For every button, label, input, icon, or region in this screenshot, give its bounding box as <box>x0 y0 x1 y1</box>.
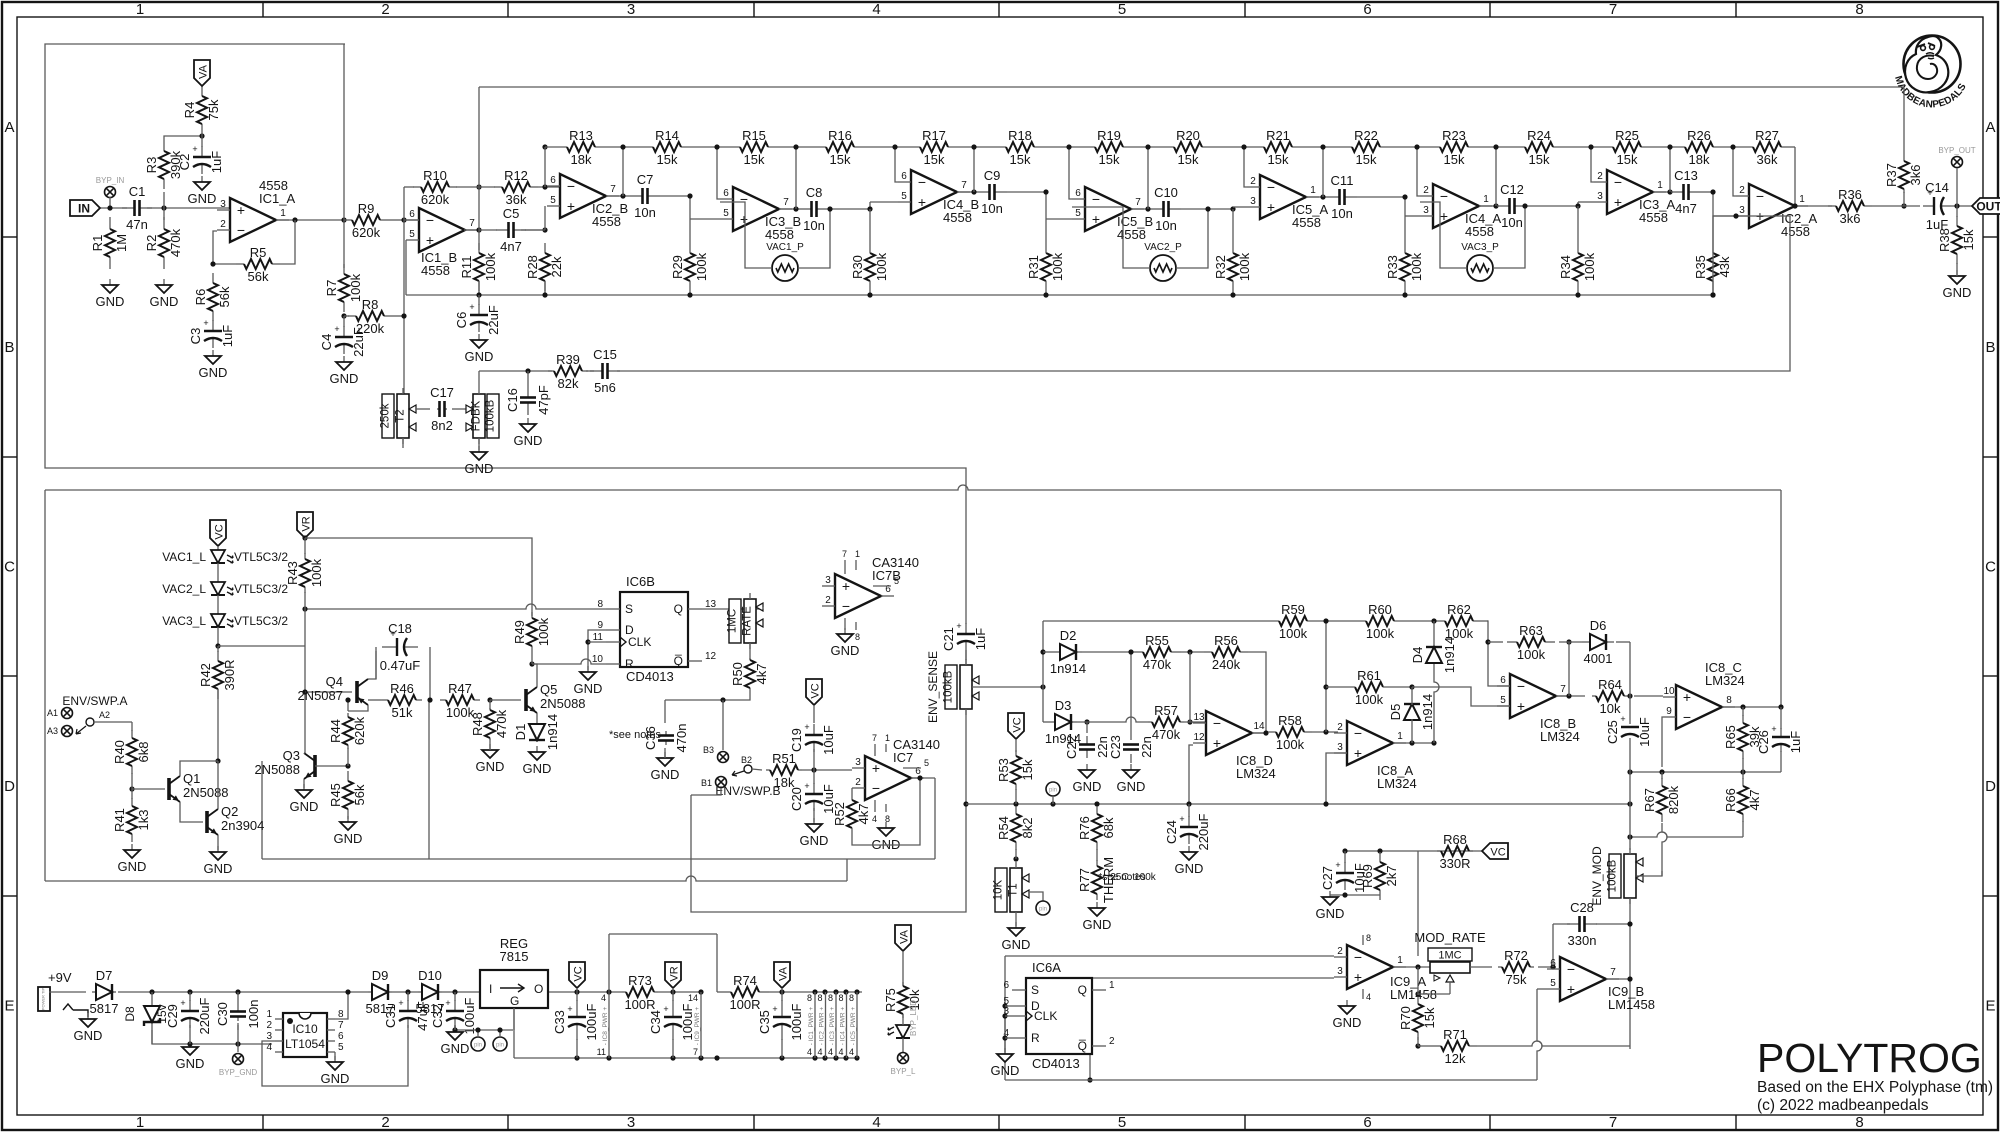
svg-text:8: 8 <box>849 993 854 1003</box>
resistor R4 <box>182 86 221 134</box>
wire R67 to wiper <box>1662 823 1667 876</box>
diode D3 <box>1045 698 1081 746</box>
wire link <box>131 722 133 731</box>
wire R64 to IC8_C <box>1634 695 1663 697</box>
capacitor C11 <box>1327 173 1357 221</box>
svg-text:100k: 100k <box>1517 647 1546 662</box>
svg-text:7: 7 <box>1560 684 1566 695</box>
svg-text:VAC2_L: VAC2_L <box>162 582 206 596</box>
resistor R55 <box>1133 633 1181 672</box>
svg-text:R8: R8 <box>362 297 379 312</box>
svg-text:2N5088: 2N5088 <box>183 785 229 800</box>
svg-text:4: 4 <box>1366 992 1371 1002</box>
junction <box>714 144 719 149</box>
svg-text:−: − <box>426 212 434 228</box>
madbeanpedals logo <box>1892 36 1969 111</box>
junction rail <box>822 989 827 994</box>
svg-text:6: 6 <box>1363 1114 1371 1131</box>
junction cap node <box>867 206 872 211</box>
wire link <box>1956 206 1958 217</box>
wire link <box>1742 772 1744 779</box>
svg-text:+: + <box>1771 724 1776 734</box>
wire center riser <box>1325 621 1327 732</box>
resistor R54 <box>996 806 1035 850</box>
op-amp IC2_A <box>1736 184 1817 239</box>
junction gnd rail <box>714 1055 719 1060</box>
power pins IC8_PWR <box>597 992 609 1058</box>
power flag VR <box>665 962 681 988</box>
capacitor C5 <box>496 206 526 254</box>
ground <box>1943 270 1972 300</box>
capacitor C2 <box>177 144 224 174</box>
wire link <box>237 992 239 1007</box>
wire to Q5 base <box>490 699 521 701</box>
junction R43 bottom <box>302 606 307 611</box>
svg-text:3: 3 <box>1337 742 1343 753</box>
wire to bus resistor <box>1404 216 1406 253</box>
svg-text:VA: VA <box>778 966 790 981</box>
wire link <box>163 192 165 220</box>
junction <box>620 144 625 149</box>
svg-text:5n6: 5n6 <box>594 380 616 395</box>
junction <box>1145 144 1150 149</box>
junction bus <box>1186 801 1191 806</box>
wire Q to RATE <box>702 608 763 610</box>
svg-text:GND: GND <box>1175 861 1204 876</box>
wire to pin5 <box>1412 687 1510 706</box>
ground <box>334 816 363 846</box>
svg-text:3: 3 <box>627 1114 635 1131</box>
svg-text:220uF: 220uF <box>197 998 212 1035</box>
wire <box>1005 1005 1012 1007</box>
wire C7 out <box>660 195 690 197</box>
svg-text:10uF: 10uF <box>1637 717 1652 747</box>
svg-text:GND: GND <box>514 433 543 448</box>
power flag VC <box>210 520 226 546</box>
port IN <box>70 200 100 216</box>
svg-text:VTL5C3/2: VTL5C3/2 <box>234 614 288 628</box>
wire Q3 base <box>315 765 348 767</box>
wire bus resistor to bus <box>1404 281 1406 295</box>
photocell VAC1_P <box>766 242 804 281</box>
svg-text:C19: C19 <box>789 728 804 752</box>
wire C28 right <box>1596 923 1630 925</box>
junction <box>1659 769 1664 774</box>
wire link <box>1096 849 1098 861</box>
pad B2 <box>732 755 752 776</box>
svg-text:68k: 68k <box>1101 817 1116 838</box>
svg-text:R63: R63 <box>1519 623 1543 638</box>
svg-text:3: 3 <box>220 199 226 210</box>
svg-text:+: + <box>567 198 575 214</box>
wire D2 to R55 <box>1082 651 1133 653</box>
svg-text:6: 6 <box>1003 980 1009 991</box>
wire B3 up <box>722 700 724 750</box>
junction <box>1040 684 1045 689</box>
wire to bus resistor <box>1045 219 1047 253</box>
wire VA loop left <box>608 934 610 992</box>
wire bias bus VB <box>406 294 1713 296</box>
svg-text:7: 7 <box>1609 1 1617 18</box>
wire IC3_A feedback tap <box>1669 147 1671 192</box>
pad <box>716 777 727 788</box>
svg-text:VA: VA <box>198 64 210 79</box>
resistor R38 <box>1937 216 1976 264</box>
svg-text:GND: GND <box>74 1028 103 1043</box>
junction <box>1588 144 1593 149</box>
wire feedback riser x344 <box>343 44 345 220</box>
svg-text:pin: pin <box>1039 907 1047 913</box>
svg-text:C7: C7 <box>637 172 654 187</box>
junction output tap <box>620 193 625 198</box>
svg-text:−: − <box>872 780 880 796</box>
pad BYP_L <box>891 1053 916 1077</box>
svg-text:*see notes: *see notes <box>609 729 661 741</box>
wire link <box>131 773 133 789</box>
svg-text:VC: VC <box>1490 847 1505 859</box>
svg-text:C: C <box>4 559 15 576</box>
junction R7 branch <box>341 217 346 222</box>
svg-text:22n: 22n <box>1139 736 1154 758</box>
wire T1 wiper <box>1029 892 1043 901</box>
svg-text:GND: GND <box>523 761 552 776</box>
svg-text:15k: 15k <box>1444 152 1465 167</box>
svg-text:VR: VR <box>301 516 313 531</box>
svg-text:- IC3_PWR +: - IC3_PWR + <box>829 1007 836 1046</box>
svg-text:R34: R34 <box>1558 255 1573 279</box>
junction cap node <box>1710 189 1715 194</box>
junction gnd rail <box>843 1055 848 1060</box>
resistor R1 <box>90 217 129 269</box>
wire bus resistor to bus <box>689 281 691 295</box>
resistor R3 <box>144 141 183 189</box>
svg-text:GND: GND <box>465 349 494 364</box>
frame column tick <box>507 2 509 17</box>
svg-text:LM324: LM324 <box>1705 673 1745 688</box>
resistor R70 <box>1398 996 1437 1040</box>
svg-text:43k: 43k <box>1717 256 1732 277</box>
svg-text:VAC1_P: VAC1_P <box>766 242 804 253</box>
svg-text:6: 6 <box>1075 188 1081 199</box>
wire link <box>454 992 456 1001</box>
junction gnd rail <box>670 1055 675 1060</box>
junction <box>1733 213 1738 218</box>
junction <box>542 292 547 297</box>
svg-text:R43: R43 <box>285 561 300 585</box>
svg-text:3: 3 <box>627 1 635 18</box>
resistor R39 <box>548 352 588 391</box>
port OUT <box>1972 198 2000 214</box>
svg-text:R31: R31 <box>1026 255 1041 279</box>
svg-text:1: 1 <box>136 1114 144 1131</box>
resistor R34 <box>1558 252 1597 281</box>
svg-text:GND: GND <box>118 859 147 874</box>
svg-text:8: 8 <box>855 632 860 642</box>
svg-text:CD4013: CD4013 <box>1032 1056 1080 1071</box>
svg-text:R9: R9 <box>358 201 375 216</box>
svg-text:5: 5 <box>1118 1 1126 18</box>
junction <box>1415 991 1420 996</box>
diode D4 <box>1410 637 1457 673</box>
svg-text:6: 6 <box>1550 958 1556 969</box>
svg-text:4558: 4558 <box>1781 224 1810 239</box>
svg-text:Q5: Q5 <box>540 682 557 697</box>
diode D7 <box>90 968 119 1016</box>
svg-text:1: 1 <box>1109 980 1115 991</box>
wire link <box>781 992 783 1001</box>
resistor R74 <box>721 973 769 1012</box>
ground <box>290 784 319 814</box>
power flag VR <box>297 512 313 538</box>
wire C20 to gnd <box>813 808 815 822</box>
wire link <box>304 538 306 554</box>
junction <box>1740 769 1745 774</box>
wire C18 left drop <box>375 647 377 679</box>
svg-text:36k: 36k <box>506 192 527 207</box>
wire IC5_A input tap <box>1244 147 1247 187</box>
svg-text:C18: C18 <box>388 621 412 636</box>
wire mod loop bottom <box>1005 1079 1537 1081</box>
svg-text:R1: R1 <box>90 235 105 252</box>
svg-text:330R: 330R <box>1439 856 1470 871</box>
junction R37 node <box>1901 203 1906 208</box>
wire C9 out <box>1007 191 1046 193</box>
wire feedback long line <box>617 216 1790 371</box>
junction <box>1740 704 1745 709</box>
resistor R10 <box>413 168 457 207</box>
wire link <box>217 646 219 652</box>
svg-text:R4: R4 <box>182 102 197 119</box>
wire pin5 bias drop <box>405 240 407 295</box>
wire C19 to node <box>813 749 815 770</box>
svg-text:R32: R32 <box>1213 255 1228 279</box>
svg-text:- IC9_PWR +: - IC9_PWR + <box>694 1007 701 1046</box>
op-amp IC8_A <box>1334 721 1417 791</box>
svg-text:GND: GND <box>1333 1015 1362 1030</box>
junction C22 tap <box>1084 719 1089 724</box>
svg-text:D: D <box>4 778 15 795</box>
wire top section outline <box>45 44 966 624</box>
resistor R40 <box>112 730 151 774</box>
svg-text:100k: 100k <box>1409 252 1424 281</box>
wire IC5_B output <box>1131 208 1151 210</box>
junction R54/T1 <box>1013 856 1018 861</box>
svg-text:C23: C23 <box>1108 735 1123 759</box>
svg-text:C9: C9 <box>984 168 1001 183</box>
junction output tap <box>1667 189 1672 194</box>
power flag VC <box>806 679 822 705</box>
wire <box>1005 1037 1012 1039</box>
junction <box>971 144 976 149</box>
ground <box>1002 922 1031 952</box>
svg-text:C22: C22 <box>1064 735 1079 759</box>
svg-text:15k: 15k <box>1617 152 1638 167</box>
junction LED chain node <box>215 643 220 648</box>
svg-text:R33: R33 <box>1385 255 1400 279</box>
svg-text:C31: C31 <box>383 1004 398 1028</box>
svg-text:D7: D7 <box>96 968 113 983</box>
wire R35 to pin3 <box>1713 216 1736 295</box>
wire link <box>672 1039 674 1058</box>
photocell VAC2_P <box>1144 242 1182 281</box>
svg-text:GND: GND <box>831 643 860 658</box>
wire link <box>478 295 480 305</box>
junction <box>1627 769 1632 774</box>
junction R44/R45 <box>345 763 350 768</box>
junction rail <box>698 989 703 994</box>
svg-text:ENV/SWP.B: ENV/SWP.B <box>715 784 780 798</box>
wire pin3 row <box>1090 977 1334 979</box>
junction gnd rail <box>812 1055 817 1060</box>
junction gnd rail <box>574 1055 579 1060</box>
svg-text:R47: R47 <box>448 681 472 696</box>
svg-text:+: + <box>469 302 474 312</box>
resistor R48 <box>470 708 509 740</box>
op-amp IC8_B <box>1497 674 1580 744</box>
resistor R72 <box>1498 948 1534 987</box>
svg-text:IC1_A: IC1_A <box>259 191 295 206</box>
svg-text:VC: VC <box>214 524 226 539</box>
svg-text:100k: 100k <box>1355 692 1384 707</box>
svg-text:5: 5 <box>1550 978 1556 989</box>
svg-text:POLYTROG: POLYTROG <box>1757 1035 1982 1081</box>
wire link <box>189 1025 191 1044</box>
wire pin5 drop <box>1537 989 1542 1080</box>
svg-text:1MC: 1MC <box>727 609 739 633</box>
wire B2 to R51 <box>752 769 762 770</box>
svg-text:R25: R25 <box>1615 128 1639 143</box>
op-amp IC4_B <box>898 170 979 225</box>
svg-text:4558: 4558 <box>765 227 794 242</box>
LED VAC2_L <box>162 582 288 596</box>
junction bus <box>1402 292 1407 297</box>
svg-text:12: 12 <box>705 651 717 662</box>
svg-text:IN: IN <box>78 202 90 216</box>
wire link <box>407 992 409 1001</box>
junction rail <box>779 989 784 994</box>
junction <box>917 775 922 780</box>
wire <box>1005 1015 1012 1017</box>
wire IC5_A feedback tap <box>1322 147 1324 197</box>
junction output tap <box>1493 203 1498 208</box>
svg-text:15k: 15k <box>1268 152 1289 167</box>
svg-text:R: R <box>1031 1031 1040 1045</box>
op-amp IC7 <box>852 737 940 800</box>
svg-text:D3: D3 <box>1055 698 1072 713</box>
capacitor C21 <box>941 621 988 651</box>
ground <box>199 350 228 380</box>
svg-text:11: 11 <box>597 1047 606 1057</box>
svg-text:R21: R21 <box>1266 128 1290 143</box>
wire BYP_IN stub <box>109 197 111 208</box>
svg-text:R11: R11 <box>459 256 474 279</box>
wire link <box>531 652 533 664</box>
svg-text:6: 6 <box>723 188 729 199</box>
wire env feedback row <box>1043 620 1279 622</box>
wire link <box>1344 851 1346 863</box>
IC IC6A <box>1026 960 1092 1071</box>
wire BYP_GND stub <box>237 1044 239 1052</box>
wire VC to LEDs <box>217 546 219 550</box>
svg-text:GND: GND <box>290 799 319 814</box>
wire to bus resistor <box>1712 216 1714 253</box>
svg-text:GND: GND <box>96 294 125 309</box>
wire R27 return <box>1794 147 1796 206</box>
svg-text:7: 7 <box>1610 967 1616 978</box>
junction <box>1627 693 1632 698</box>
wire R61 right <box>1383 686 1412 688</box>
junction <box>1627 921 1632 926</box>
wire IC3_B feedback tap <box>795 147 797 209</box>
svg-text:−: − <box>918 174 926 190</box>
junction <box>1241 144 1246 149</box>
junction bus <box>963 801 968 806</box>
junction R8 node <box>401 313 406 318</box>
svg-text:- IC8_PWR +: - IC8_PWR + <box>602 1007 609 1046</box>
svg-text:C32: C32 <box>430 1004 445 1028</box>
junction cap node <box>1043 189 1048 194</box>
junction bus <box>1013 801 1018 806</box>
svg-text:15k: 15k <box>1020 759 1035 780</box>
wire link <box>525 229 545 231</box>
svg-text:ENV/SWP.A: ENV/SWP.A <box>62 694 127 708</box>
svg-text:6k8: 6k8 <box>136 742 151 763</box>
junction rail <box>854 989 859 994</box>
svg-text:R28: R28 <box>525 255 540 279</box>
wire node drop <box>1712 192 1714 216</box>
junction <box>1431 740 1436 745</box>
power flag VA <box>895 925 911 951</box>
ground <box>991 1048 1020 1078</box>
wire Q1 collector <box>180 761 218 776</box>
svg-text:B: B <box>1985 339 1995 356</box>
svg-text:14: 14 <box>688 993 698 1003</box>
svg-text:4558: 4558 <box>1639 210 1668 225</box>
svg-text:R10: R10 <box>423 168 447 183</box>
svg-text:R53: R53 <box>996 758 1011 782</box>
svg-text:R15: R15 <box>742 128 766 143</box>
svg-text:1: 1 <box>1397 955 1403 966</box>
capacitor C9 <box>977 168 1007 216</box>
svg-text:15k: 15k <box>1529 152 1550 167</box>
resistor R60 <box>1366 602 1395 641</box>
svg-text:R59: R59 <box>1281 602 1305 617</box>
svg-text:2: 2 <box>220 219 226 230</box>
diode D6 <box>1582 618 1614 666</box>
wire to IC2_A + input <box>1713 215 1736 217</box>
svg-text:620k: 620k <box>352 225 381 240</box>
svg-text:- IC2_PWR +: - IC2_PWR + <box>819 1007 826 1046</box>
wire to IC5_B + input <box>1046 218 1072 220</box>
junction <box>1627 976 1632 981</box>
svg-text:+: + <box>1354 745 1362 761</box>
svg-text:820k: 820k <box>1666 785 1681 814</box>
capacitor C16 <box>505 385 551 415</box>
svg-text:LM324: LM324 <box>1377 776 1417 791</box>
wire link <box>1742 821 1744 837</box>
svg-text:+: + <box>567 1004 572 1014</box>
svg-text:7: 7 <box>842 549 847 559</box>
svg-text:100k: 100k <box>483 252 498 281</box>
wire IC4_B output <box>957 191 977 193</box>
junction bus <box>867 292 872 297</box>
LED BYP_LED <box>888 1000 918 1038</box>
junction <box>1415 964 1420 969</box>
svg-text:C24: C24 <box>1164 820 1179 844</box>
svg-text:100uF: 100uF <box>680 1004 695 1041</box>
wire feedback riser x479 <box>478 87 480 250</box>
svg-text:R26: R26 <box>1687 128 1711 143</box>
